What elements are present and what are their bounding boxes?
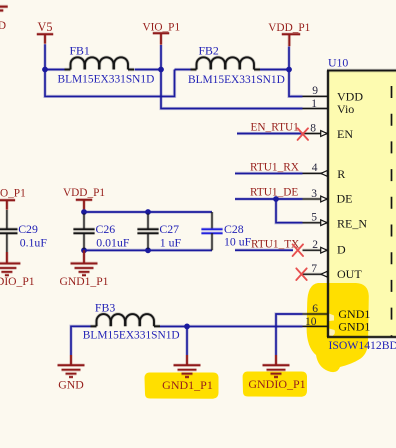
power port VIO_P1 bbox=[142, 21, 180, 44]
net label RTU1_DE bbox=[250, 187, 298, 199]
power port VIO_P1 left (clipped) bbox=[0, 187, 26, 209]
svg-text:10: 10 bbox=[305, 316, 317, 328]
wire node GND1 to pin 10 bbox=[187, 325, 303, 328]
IC U10 body fill bbox=[328, 71, 396, 338]
wire node VIO to pin 1 Vio bbox=[161, 70, 303, 109]
wire FB2 left lead join bbox=[175, 68, 191, 71]
svg-text:0.1uF: 0.1uF bbox=[20, 235, 48, 249]
svg-text:RTU1_RX: RTU1_RX bbox=[250, 162, 299, 174]
isolation barrier (dashed) bbox=[391, 72, 393, 337]
no-ERC X on pin 8 bbox=[298, 128, 308, 140]
power port VDD_P1 mid bbox=[63, 187, 105, 209]
ground GNDIO_P1 (under C29) bbox=[0, 252, 35, 288]
svg-text:1: 1 bbox=[311, 98, 317, 110]
node V5/FB1 bbox=[42, 67, 48, 73]
wire FB3 left drop to GND bbox=[71, 326, 91, 355]
node C27 top bbox=[145, 209, 151, 215]
pin 10 GND1 bbox=[303, 316, 371, 334]
pin 1 Vio bbox=[303, 98, 355, 116]
pin 9 VDD bbox=[303, 85, 364, 104]
ground GND1_P1 (bottom) bbox=[162, 355, 213, 392]
ferrite bead FB3 bbox=[83, 300, 180, 341]
ground (clipped, top-left) bbox=[0, 7, 8, 32]
wire VIO_P1 drop bbox=[159, 45, 162, 70]
wire RTU1_RX to pin 4 bbox=[235, 172, 303, 175]
ground GNDIO_P1 (bottom) bbox=[248, 355, 305, 391]
svg-text:GNDIO_P1: GNDIO_P1 bbox=[0, 275, 35, 288]
svg-text:6: 6 bbox=[312, 303, 318, 315]
svg-text:C29: C29 bbox=[18, 222, 38, 236]
capacitor C29 bbox=[0, 210, 47, 252]
svg-text:GND1_P1: GND1_P1 bbox=[162, 378, 213, 392]
pin 6 GND1 bbox=[303, 303, 371, 321]
svg-text:FB1: FB1 bbox=[70, 43, 90, 57]
svg-text:RE_N: RE_N bbox=[337, 216, 367, 230]
svg-text:C27: C27 bbox=[159, 222, 179, 236]
wire pin 6 to GNDIO_P1 ground bbox=[276, 314, 303, 355]
svg-text:GNDIO_P1: GNDIO_P1 bbox=[248, 377, 305, 391]
node RTU1_DE branch bbox=[273, 196, 279, 202]
wire EN_RTU1 to pin 8 bbox=[237, 132, 303, 135]
svg-text:OUT: OUT bbox=[337, 267, 362, 281]
svg-text:BLM15EX331SN1D: BLM15EX331SN1D bbox=[58, 74, 155, 86]
svg-text:Vio: Vio bbox=[337, 102, 354, 116]
svg-text:VIO_P1: VIO_P1 bbox=[0, 187, 26, 199]
pin 3 DE bbox=[303, 188, 353, 206]
wire FB1 left lead join bbox=[45, 68, 65, 71]
wire cap bus top bbox=[84, 210, 212, 213]
svg-text:U10: U10 bbox=[328, 56, 348, 70]
wire cap bus bottom bbox=[84, 249, 212, 252]
wire node VDD to pin 9 VDD bbox=[289, 70, 303, 97]
ferrite bead FB1 bbox=[58, 43, 155, 85]
svg-text:VDD_P1: VDD_P1 bbox=[63, 187, 105, 199]
svg-text:BLM15EX331SN1D: BLM15EX331SN1D bbox=[83, 329, 180, 341]
svg-text:C26: C26 bbox=[96, 222, 116, 236]
svg-text:GND: GND bbox=[58, 377, 84, 391]
wire RTU1_DE to pin 3 bbox=[235, 197, 303, 200]
wire V5 bypass to FB2 bbox=[45, 70, 175, 97]
node FB3/GND1 bbox=[184, 324, 190, 330]
highlight over GNDIO_P1 label bbox=[243, 372, 307, 397]
node C27 bottom bbox=[145, 247, 151, 253]
svg-text:FB3: FB3 bbox=[95, 300, 115, 314]
svg-text:BLM15EX331SN1D: BLM15EX331SN1D bbox=[188, 74, 285, 86]
power port V5 bbox=[37, 20, 53, 44]
svg-text:4: 4 bbox=[312, 162, 318, 174]
svg-text:GND1_P1: GND1_P1 bbox=[60, 275, 109, 288]
svg-text:RTU1_DE: RTU1_DE bbox=[250, 187, 298, 199]
node C26 ground bbox=[81, 247, 87, 253]
svg-text:GND1: GND1 bbox=[338, 320, 370, 334]
designator U10 bbox=[328, 56, 348, 70]
svg-text:R: R bbox=[337, 167, 345, 181]
svg-text:10 uF: 10 uF bbox=[224, 235, 252, 249]
svg-text:EN: EN bbox=[337, 127, 353, 141]
pin 2 D bbox=[303, 239, 347, 256]
IC U10 border bbox=[327, 71, 396, 338]
svg-text:V5: V5 bbox=[38, 20, 53, 34]
pin 8 EN bbox=[303, 122, 354, 141]
wire VDD_P1 mid drop bbox=[82, 209, 85, 212]
capacitor C28 bbox=[201, 212, 251, 250]
capacitor C26 bbox=[73, 214, 129, 250]
svg-text:DE: DE bbox=[337, 192, 353, 206]
svg-text:9: 9 bbox=[312, 85, 318, 97]
node VDD_P1 bbox=[286, 67, 292, 73]
svg-text:7: 7 bbox=[311, 263, 317, 275]
svg-text:3: 3 bbox=[311, 188, 317, 200]
wire node GND1 to GND1_P1 ground bbox=[185, 326, 188, 355]
svg-text:EN_RTU1: EN_RTU1 bbox=[251, 122, 299, 134]
capacitor C27 bbox=[137, 214, 181, 250]
svg-text:2: 2 bbox=[312, 239, 318, 251]
highlight over GND1 pins of U10 bbox=[307, 283, 369, 372]
node VIO_P1 bbox=[158, 67, 164, 73]
wire FB2 right to node VDD bbox=[260, 68, 289, 71]
svg-text:1 uF: 1 uF bbox=[160, 235, 182, 249]
svg-text:GND: GND bbox=[0, 20, 6, 32]
ground GND1_P1 (under C26) bbox=[60, 250, 109, 288]
pin 4 R bbox=[303, 162, 346, 181]
pin 7 OUT bbox=[303, 263, 363, 281]
no-ERC X on pin 7 bbox=[296, 268, 306, 280]
pin 5 RE_N bbox=[303, 212, 368, 231]
ferrite bead FB2 bbox=[188, 43, 285, 86]
wire FB3 right to node GND1 bbox=[160, 325, 187, 328]
svg-text:5: 5 bbox=[311, 212, 317, 224]
no-ERC X on pin 2 bbox=[293, 244, 303, 256]
net label RTU1_TX bbox=[251, 239, 299, 251]
net label RTU1_RX bbox=[250, 162, 299, 174]
wire FB1 right to node VIO bbox=[135, 68, 162, 71]
svg-text:ISOW1412BDFMR: ISOW1412BDFMR bbox=[329, 339, 396, 352]
svg-text:D: D bbox=[337, 242, 346, 256]
svg-text:8: 8 bbox=[310, 122, 316, 134]
wire RTU1_TX to pin 2 bbox=[235, 249, 293, 252]
power port VDD_P1 top bbox=[268, 22, 310, 46]
svg-text:VDD_P1: VDD_P1 bbox=[268, 22, 310, 34]
svg-text:VIO_P1: VIO_P1 bbox=[142, 21, 180, 33]
highlight over GND1_P1 label bbox=[145, 373, 219, 399]
wire DE branch to pin 5 RE_N bbox=[276, 199, 303, 223]
svg-text:FB2: FB2 bbox=[199, 43, 219, 57]
wire V5 to FB1 junction bbox=[43, 44, 46, 69]
wire VDD_P1 drop bbox=[287, 47, 290, 70]
svg-text:0.01uF: 0.01uF bbox=[96, 235, 130, 249]
node VDD_P1 mid bbox=[81, 209, 87, 215]
ground GND (bottom) bbox=[58, 355, 85, 391]
part number ISOW1412BDFMR bbox=[329, 339, 396, 352]
net label EN_RTU1 bbox=[251, 122, 299, 134]
